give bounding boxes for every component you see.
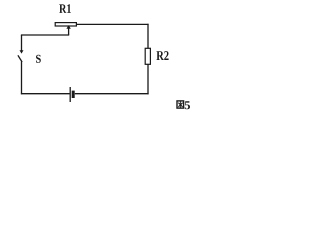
switch S blade (open) — [18, 55, 22, 62]
battery negative plate (short thick) — [72, 91, 75, 98]
wire bottom left: battery to bottom-left corner — [21, 93, 70, 95]
wire right vertical upper: corner to R2 — [147, 24, 149, 49]
wire left vertical lower: switch to bottom-left corner — [21, 62, 23, 95]
figure caption boxed glyph (Chinese character 图) — [177, 101, 184, 108]
wire left branch horizontal: top-left corner to slider stem — [21, 34, 69, 36]
wire bottom right: corner to battery — [75, 93, 149, 95]
rheostat slider arrow (pointing up at R1) — [68, 27, 70, 35]
resistor R1 (rheostat body) — [55, 23, 76, 26]
wire right vertical lower: R2 to bottom-right corner — [147, 64, 149, 94]
resistor R2 — [145, 48, 150, 64]
wire top: R1 right terminal to top-right corner — [77, 23, 149, 25]
label S — [36, 55, 41, 63]
label R1 — [59, 4, 71, 13]
label R2 — [156, 51, 168, 60]
figure caption number 5 — [185, 101, 190, 109]
battery positive plate (long thin) — [69, 87, 71, 102]
switch S fixed contact wire with arrow pointing down — [21, 35, 23, 51]
